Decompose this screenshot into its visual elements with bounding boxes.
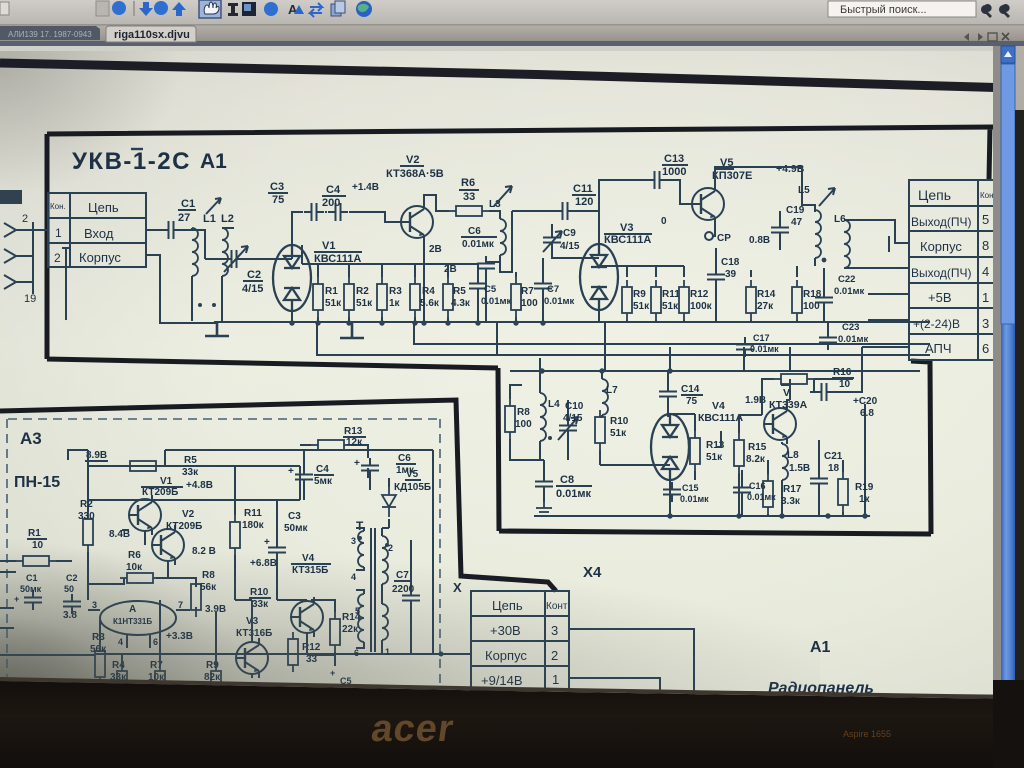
capacitor C16 — [733, 480, 751, 500]
svg-text:L7: L7 — [606, 385, 618, 396]
svg-text:УКВ-1-2С: УКВ-1-2С — [72, 148, 191, 175]
svg-text:Цепь: Цепь — [918, 187, 951, 203]
resistor R5 — [443, 277, 453, 317]
svg-text:+4.9В: +4.9В — [776, 163, 805, 175]
svg-text:+5В: +5В — [928, 290, 952, 305]
svg-text:С8: С8 — [560, 474, 574, 486]
svg-text:51к: 51к — [706, 452, 723, 463]
svg-text:8.2к: 8.2к — [746, 454, 766, 465]
svg-text:8: 8 — [982, 238, 989, 253]
svg-text:0.8В: 0.8В — [749, 235, 770, 246]
svg-text:33к: 33к — [182, 467, 199, 478]
svg-text:С10: С10 — [565, 401, 584, 412]
svg-text:СР: СР — [717, 233, 731, 244]
A3 C5 label — [330, 668, 352, 686]
svg-text:51к: 51к — [356, 298, 373, 309]
svg-text:R16: R16 — [833, 367, 852, 378]
capacitor C17 — [736, 337, 754, 357]
svg-text:R7: R7 — [521, 286, 534, 297]
resistor R14 — [746, 280, 756, 320]
svg-text:С2: С2 — [247, 269, 261, 281]
junction dots bus — [289, 320, 545, 325]
svg-text:R4: R4 — [422, 286, 435, 297]
svg-text:8.9В: 8.9В — [86, 450, 107, 461]
A3 resistor R8 — [191, 577, 201, 617]
capacitor C1 — [161, 221, 181, 239]
capacitor C22 — [815, 290, 833, 310]
svg-text:75: 75 — [272, 194, 284, 206]
svg-text:КВС111А: КВС111А — [698, 412, 744, 424]
svg-text:4.3к: 4.3к — [451, 298, 471, 309]
svg-text:18: 18 — [828, 463, 840, 474]
svg-text:12к: 12к — [346, 437, 363, 448]
shield dashed border — [7, 419, 440, 686]
svg-text:4/15: 4/15 — [242, 283, 263, 295]
svg-text:51к: 51к — [633, 301, 650, 312]
capacitor C14 — [659, 384, 677, 404]
svg-text:ПН-15: ПН-15 — [14, 474, 60, 491]
svg-text:С6: С6 — [398, 453, 411, 464]
V2 collector wire — [424, 195, 449, 211]
connector body left edge — [0, 190, 22, 204]
tuning arrow L5 — [819, 188, 835, 206]
svg-text:R3: R3 — [389, 286, 402, 297]
transformer left winding a — [358, 531, 364, 567]
svg-text:51к: 51к — [610, 428, 627, 439]
svg-text:2: 2 — [54, 251, 61, 265]
svg-text:L1: L1 — [203, 213, 216, 225]
wire R6 to L3 — [489, 211, 500, 219]
svg-text:L6: L6 — [834, 214, 846, 225]
capacitor C19 — [771, 220, 789, 240]
page top edge rule — [0, 63, 1014, 88]
svg-text:Кон: Кон — [980, 191, 994, 200]
resistor R18 — [792, 280, 802, 320]
coil L4 — [540, 393, 546, 441]
svg-text:19: 19 — [24, 293, 36, 305]
svg-text:Цепь: Цепь — [88, 200, 119, 215]
wire Korpus row to left — [95, 653, 471, 655]
svg-text:50мк: 50мк — [284, 523, 309, 534]
rail y264 — [302, 245, 478, 264]
svg-text:V3: V3 — [620, 222, 633, 234]
svg-text:+: + — [288, 466, 294, 477]
svg-text:5: 5 — [982, 212, 989, 227]
svg-text:КТ368А·5В: КТ368А·5В — [386, 168, 444, 180]
svg-text:0.01мк: 0.01мк — [544, 296, 575, 307]
wire +9/14V row to right — [569, 678, 660, 696]
resistor R1 — [313, 277, 323, 317]
svg-text:1: 1 — [982, 290, 989, 305]
svg-text:1к: 1к — [859, 494, 871, 505]
svg-text:АЛИ139 17. 1987-0943: АЛИ139 17. 1987-0943 — [8, 30, 92, 39]
transformer right winding — [382, 536, 388, 584]
capacitor C18 — [707, 267, 725, 287]
A3 capacitor C3 — [268, 540, 286, 560]
return rail upper — [414, 323, 930, 344]
svg-text:С11: С11 — [573, 183, 593, 195]
svg-text:51к: 51к — [662, 301, 679, 312]
svg-text:1к: 1к — [389, 298, 401, 309]
wire +30V row to right — [569, 629, 694, 696]
svg-text:27: 27 — [178, 212, 190, 224]
svg-text:Вход: Вход — [84, 226, 114, 241]
svg-text:А3: А3 — [20, 429, 42, 448]
svg-text:riga110sx.djvu: riga110sx.djvu — [114, 29, 190, 41]
svg-text:R17: R17 — [783, 484, 802, 495]
block A1 outline — [47, 127, 993, 534]
A3 transistor V2 KT209B — [152, 525, 184, 565]
A3 resistor R2 — [83, 512, 93, 552]
capacitor C15 — [663, 482, 681, 502]
svg-text:0.01мк: 0.01мк — [838, 334, 869, 345]
transistor V5 KP307E — [692, 184, 724, 224]
svg-text:75: 75 — [686, 396, 698, 407]
svg-text:Корпус: Корпус — [920, 239, 962, 254]
svg-text:R2: R2 — [356, 286, 369, 297]
wire C2 to V1 — [244, 245, 292, 259]
svg-text:51к: 51к — [325, 298, 342, 309]
svg-text:Корпус: Корпус — [79, 250, 121, 265]
svg-text:5.6к: 5.6к — [420, 298, 440, 309]
capacitor C13 — [647, 171, 667, 189]
svg-text:180к: 180к — [242, 520, 265, 531]
svg-text:С15: С15 — [682, 483, 699, 493]
svg-text:КТ209Б: КТ209Б — [166, 521, 202, 532]
resistor R2 — [344, 277, 354, 317]
svg-text:R12: R12 — [690, 289, 709, 300]
A3 resistor R14 — [330, 612, 340, 652]
coil L6 — [844, 220, 850, 268]
svg-text:0.01мк: 0.01мк — [747, 492, 776, 502]
wire input row1 to C1 — [146, 230, 205, 259]
right scrollbar — [993, 46, 1024, 768]
A3 resistor R10 — [250, 587, 269, 610]
A3 resistor R12 — [288, 632, 298, 672]
A3 resistor R9 — [211, 664, 221, 704]
wire L3 to C11 — [512, 180, 647, 244]
svg-text:47: 47 — [791, 217, 803, 228]
svg-text:27к: 27к — [757, 301, 774, 312]
A3 resistor R7 — [155, 664, 165, 704]
svg-text:С21: С21 — [824, 451, 843, 462]
capacitor C8 — [535, 474, 553, 494]
svg-text:L2: L2 — [221, 213, 234, 225]
svg-text:+(2-24)В: +(2-24)В — [913, 317, 960, 331]
wires varactor section — [600, 414, 762, 480]
svg-text:С5: С5 — [484, 284, 497, 295]
svg-text:С3: С3 — [270, 181, 284, 193]
A3 wires — [0, 450, 433, 678]
wire V3 bottom — [598, 310, 600, 323]
capacitor C2 variable — [224, 250, 244, 268]
A3 top rail — [88, 450, 433, 500]
A3 resistor R6 — [120, 573, 160, 583]
quick search box — [828, 1, 1010, 18]
svg-text:С9: С9 — [563, 228, 576, 239]
resistor R17 — [763, 474, 773, 514]
X connector table — [471, 591, 569, 690]
capacitor C9 variable — [543, 230, 561, 250]
wire V4 bottom — [669, 480, 671, 516]
resistor R19 — [838, 472, 848, 512]
A3 transistor V3 KT316B — [236, 638, 268, 678]
IC pins — [88, 610, 190, 648]
A3 resistor R5 — [123, 461, 163, 471]
svg-text:Выход(ПЧ): Выход(ПЧ) — [911, 266, 972, 280]
svg-text:R1: R1 — [325, 286, 338, 297]
svg-text:С23: С23 — [842, 322, 859, 333]
capacitor C5 — [469, 276, 487, 296]
svg-text:2В: 2В — [429, 244, 442, 255]
svg-text:0: 0 — [661, 216, 667, 227]
capacitor C6 — [477, 256, 495, 276]
varactor V4 KVS111A lower — [651, 414, 689, 480]
svg-text:С13: С13 — [664, 153, 684, 165]
A3 diode V5 KD105B — [382, 487, 396, 517]
svg-text:Кон.: Кон. — [50, 202, 66, 211]
svg-text:0.01мк: 0.01мк — [556, 488, 592, 500]
svg-text:С4: С4 — [326, 184, 341, 196]
svg-text:V5: V5 — [406, 469, 419, 480]
svg-text:Aspire 1655: Aspire 1655 — [843, 729, 891, 739]
svg-text:С7: С7 — [547, 284, 559, 295]
resistor R9 — [622, 280, 632, 320]
varactor V1 KVS111A — [273, 245, 311, 311]
transistor V7 KT339A — [764, 404, 796, 444]
svg-text:С14: С14 — [681, 384, 700, 395]
svg-text:R14: R14 — [757, 289, 776, 300]
V2 emitter wire — [423, 242, 425, 323]
svg-text:R11: R11 — [662, 289, 680, 300]
ground under C8 — [536, 502, 552, 516]
svg-text:КД105Б: КД105Б — [394, 482, 431, 493]
top chrome — [0, 0, 1024, 51]
svg-text:2: 2 — [22, 213, 28, 225]
V5 drain supply wire — [715, 167, 815, 212]
svg-text:+С20: +С20 — [853, 396, 878, 407]
capacitor C11 — [555, 202, 575, 220]
svg-text:V1: V1 — [322, 240, 335, 252]
A3 capacitor C1 — [24, 590, 42, 610]
svg-text:R13: R13 — [344, 426, 363, 437]
main signal wire y212 — [292, 212, 401, 245]
svg-text:R10: R10 — [610, 416, 629, 427]
svg-text:R6: R6 — [461, 177, 475, 189]
title UKV-1-2S — [72, 148, 227, 175]
transistor V2 KT368A — [401, 202, 433, 242]
A3 resistor R11 — [230, 515, 240, 555]
svg-text:R15: R15 — [748, 442, 767, 453]
svg-text:V: V — [783, 387, 790, 399]
A3 capacitor C7 — [402, 588, 420, 608]
left connector pins — [4, 222, 70, 320]
svg-text:R11: R11 — [244, 508, 262, 519]
svg-text:100: 100 — [521, 298, 538, 309]
svg-text:39: 39 — [725, 269, 737, 280]
svg-text:V2: V2 — [406, 154, 419, 166]
svg-text:3: 3 — [982, 316, 989, 331]
svg-text:4: 4 — [982, 264, 989, 279]
toolbar icons — [0, 0, 372, 18]
verticals to lower section — [605, 323, 790, 371]
A3 capacitor C4 — [295, 467, 313, 487]
svg-text:R8: R8 — [517, 407, 530, 418]
svg-text:А1: А1 — [200, 150, 227, 173]
table row stubs — [862, 294, 909, 371]
tuning arrow L3 — [494, 186, 512, 206]
ground T-bar under L2 — [205, 321, 229, 336]
svg-text:С4: С4 — [316, 464, 329, 475]
svg-text:4/15: 4/15 — [563, 413, 583, 424]
A3 resistor R3 — [95, 644, 105, 684]
coil L2 — [222, 228, 228, 276]
svg-text:Быстрый поиск...: Быстрый поиск... — [840, 4, 927, 16]
svg-text:100к: 100к — [690, 301, 713, 312]
svg-text:33: 33 — [463, 191, 475, 203]
junction dots lower — [539, 368, 867, 518]
ground T-bar on bus — [340, 323, 364, 338]
main bus y321 — [214, 321, 930, 323]
right connector table — [909, 180, 1002, 360]
resistor R12 — [679, 280, 689, 320]
coil L1 — [192, 228, 198, 276]
svg-text:С6: С6 — [468, 226, 481, 237]
svg-text:+4.8В: +4.8В — [186, 480, 213, 491]
capacitor C20 — [814, 383, 834, 401]
wire C13 to V5 gate — [667, 180, 692, 204]
svg-text:КВС111А: КВС111А — [604, 234, 651, 246]
lower section rail — [510, 370, 920, 372]
svg-text:6: 6 — [982, 341, 989, 356]
svg-text:КТ209Б: КТ209Б — [142, 487, 178, 498]
resistor R13 lower — [690, 431, 700, 471]
svg-text:0.01мк: 0.01мк — [750, 344, 779, 354]
capacitor C4 — [328, 203, 348, 221]
svg-text:R9: R9 — [633, 289, 646, 300]
svg-text:V1: V1 — [160, 476, 173, 487]
coil L8 — [782, 444, 788, 480]
A3 transistor V1 KT209B — [129, 495, 161, 535]
capacitor C21 — [810, 471, 828, 491]
svg-text:С17: С17 — [753, 333, 770, 343]
svg-text:R5: R5 — [184, 455, 197, 466]
tuning arrow C1 — [206, 198, 221, 214]
capacitor C3 — [304, 203, 324, 221]
svg-text:С18: С18 — [721, 257, 740, 268]
svg-text:200: 200 — [322, 197, 340, 209]
transformer left winding b — [358, 594, 364, 642]
coil L3 — [500, 219, 506, 255]
A3 left edge stubs — [0, 572, 16, 628]
svg-text:2В: 2В — [444, 264, 457, 275]
coil L5 — [815, 210, 821, 258]
svg-text:Выход(ПЧ): Выход(ПЧ) — [911, 215, 972, 229]
A3 capacitor C6 — [361, 458, 379, 478]
svg-text:С16: С16 — [749, 481, 766, 491]
svg-text:1000: 1000 — [662, 166, 686, 178]
svg-text:0.01мк: 0.01мк — [680, 494, 709, 504]
capacitor C10 variable — [559, 418, 577, 438]
svg-text:L4: L4 — [548, 399, 560, 410]
svg-text:0.01мк: 0.01мк — [481, 296, 512, 307]
coil L7 — [602, 379, 608, 415]
wire L2 top to C2 — [205, 228, 234, 259]
resistor R4 — [410, 277, 420, 317]
lower ground bus — [534, 515, 870, 517]
svg-text:1: 1 — [55, 226, 62, 240]
svg-text:С1: С1 — [181, 198, 195, 210]
svg-text:6.8: 6.8 — [860, 408, 874, 419]
A3 capacitor C2 — [63, 594, 81, 614]
svg-text:КП307Е: КП307Е — [712, 170, 752, 182]
svg-text:acer: acer — [369, 707, 457, 750]
varactor V3 KVS111A — [580, 244, 618, 310]
svg-text:L5: L5 — [798, 185, 810, 196]
resistor R15 — [734, 433, 744, 473]
wire kt339 emitter to L8 — [787, 379, 790, 444]
capacitor C23 — [819, 330, 837, 350]
svg-text:120: 120 — [575, 196, 593, 208]
svg-text:С22: С22 — [838, 274, 855, 285]
rail y266 right — [599, 266, 684, 277]
svg-text:R19: R19 — [855, 482, 874, 493]
A3 transistor V4 KT315B — [291, 597, 323, 637]
return rail lower — [317, 323, 930, 355]
svg-text:4/15: 4/15 — [560, 241, 580, 252]
node CP — [713, 224, 715, 236]
svg-text:10: 10 — [839, 379, 851, 390]
A3 resistor R4 — [117, 664, 127, 704]
svg-text:0.01мк: 0.01мк — [462, 239, 495, 250]
svg-text:0.01мк: 0.01мк — [834, 286, 865, 297]
left connector table — [48, 193, 146, 267]
svg-text:3.3к: 3.3к — [781, 496, 801, 507]
resistor R3 — [377, 277, 387, 317]
svg-text:С3: С3 — [288, 511, 301, 522]
svg-text:С19: С19 — [786, 205, 805, 216]
svg-text:R5: R5 — [453, 286, 466, 297]
A3 resistor R13 — [311, 440, 351, 450]
svg-text:R1: R1 — [28, 528, 41, 539]
svg-text:+1.4В: +1.4В — [352, 182, 379, 193]
IC DA1 oval — [100, 601, 176, 635]
resistor R16 — [774, 374, 814, 384]
resistor R6 — [449, 206, 489, 216]
wire korpus row2 to bus — [146, 255, 218, 323]
resistor R10 lower — [595, 410, 605, 450]
svg-text:V4: V4 — [712, 400, 725, 412]
svg-text:1.5В: 1.5В — [789, 463, 810, 474]
svg-text:5мк: 5мк — [314, 476, 333, 487]
svg-text:L8: L8 — [787, 450, 799, 461]
svg-text:100: 100 — [515, 419, 532, 430]
wire V1 bottom to bus — [291, 311, 293, 323]
resistor R7 — [511, 277, 521, 317]
tabs — [0, 26, 1009, 42]
capacitor C7 — [534, 276, 552, 296]
svg-text:V2: V2 — [182, 509, 195, 520]
resistor R11 — [651, 280, 661, 320]
transformer T core — [371, 528, 375, 652]
svg-text:330: 330 — [78, 511, 95, 522]
svg-text:+: + — [354, 458, 360, 469]
resistor R8 lower — [505, 399, 515, 439]
A3 resistor R1 — [16, 556, 56, 566]
block A3 outline — [0, 400, 556, 591]
